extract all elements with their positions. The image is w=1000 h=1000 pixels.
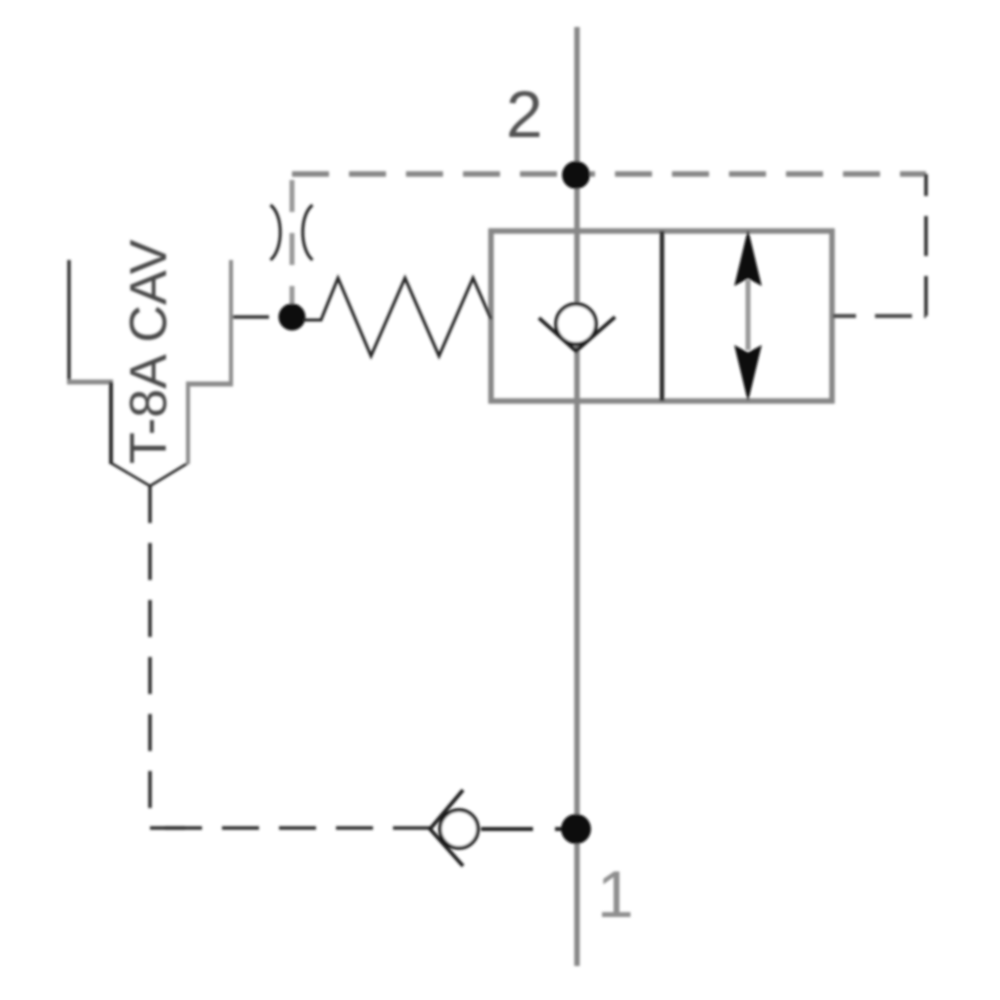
cavity outline T-8A: funnel right <box>150 463 188 486</box>
svg-text:1: 1 <box>597 857 634 931</box>
node 2 junction dot <box>562 161 590 189</box>
cavity outline T-8A: funnel left <box>111 463 150 486</box>
valve body U1 position divider <box>660 231 665 401</box>
wire: dashed pilot bottom horizontal to check valve CV2 <box>150 826 430 830</box>
node: spring-chamber pilot junction (dot) <box>279 304 306 331</box>
cavity outline T-8A: outer right vertical <box>229 260 233 384</box>
wire: dashed pilot from check valve CV2 to node 1 <box>481 827 572 831</box>
svg-text:2: 2 <box>506 77 543 151</box>
cavity outline T-8A: inner left vertical <box>109 382 113 464</box>
cavity outline T-8A: left shelf <box>67 380 113 385</box>
spring K1 <box>303 278 491 356</box>
cavity outline T-8A: outer left vertical <box>67 260 71 381</box>
wire: pilot dashed line into valve right port <box>833 314 926 318</box>
flow arrow lower head <box>735 346 761 400</box>
wire: pilot dashed line through orifice down to spring node <box>290 174 295 310</box>
wire: pilot dashed line right side down <box>924 174 928 316</box>
cavity outline T-8A: inner right vertical <box>186 384 190 464</box>
svg-text:T-8A CAV: T-8A CAV <box>120 239 178 464</box>
wire: dashed line cavity port to spring node <box>232 315 284 319</box>
wire: dashed pilot corner stub at bottom-left <box>150 826 185 830</box>
node 1 junction dot <box>561 814 591 844</box>
valve body U1 outline <box>491 231 832 401</box>
check valve CV1 seat inside valve body <box>539 317 615 351</box>
check valve CV2 ball (circle) <box>440 810 478 848</box>
flow arrow upper head <box>735 231 761 285</box>
flow arrow (double-headed) shaft in right position <box>746 280 751 350</box>
check valve CV1 ball (circle) inside valve body <box>556 304 596 344</box>
wire: main vertical line port2-to-port1 <box>574 27 580 966</box>
orifice (restriction) symbol left arc <box>271 205 281 260</box>
wire: pilot dashed line node2 to right corner <box>576 171 926 177</box>
wire: pilot dashed line node2 to orifice corner <box>292 171 576 177</box>
wire: dashed pilot from cavity funnel down <box>148 486 152 828</box>
check valve CV2 seat <box>430 790 463 866</box>
orifice (restriction) symbol right arc <box>303 205 313 260</box>
cavity outline T-8A: right shelf <box>186 382 233 387</box>
